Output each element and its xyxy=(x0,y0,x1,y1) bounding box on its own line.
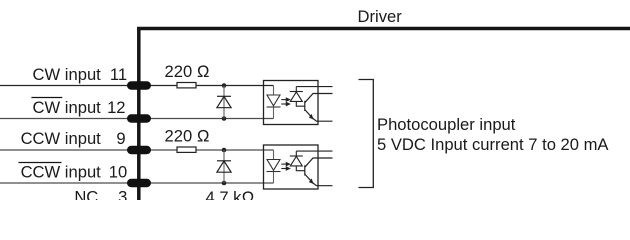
svg-text:12: 12 xyxy=(107,98,125,117)
svg-text:220 Ω: 220 Ω xyxy=(165,127,210,146)
svg-text:CCW input: CCW input xyxy=(21,162,102,181)
svg-text:5 VDC Input current 7 to 20 mA: 5 VDC Input current 7 to 20 mA xyxy=(377,135,609,154)
svg-text:4.7 kΩ: 4.7 kΩ xyxy=(206,188,255,200)
svg-text:NC: NC xyxy=(74,187,98,200)
svg-text:CCW input: CCW input xyxy=(21,129,102,148)
svg-text:11: 11 xyxy=(110,65,127,84)
svg-text:CW input: CW input xyxy=(33,65,102,84)
svg-text:CW input: CW input xyxy=(33,98,102,117)
svg-text:Photocoupler input: Photocoupler input xyxy=(377,115,516,134)
svg-text:10: 10 xyxy=(109,162,127,181)
svg-text:9: 9 xyxy=(116,129,125,148)
svg-text:Driver: Driver xyxy=(358,7,403,26)
svg-text:3: 3 xyxy=(118,187,127,200)
svg-text:220 Ω: 220 Ω xyxy=(165,62,210,81)
